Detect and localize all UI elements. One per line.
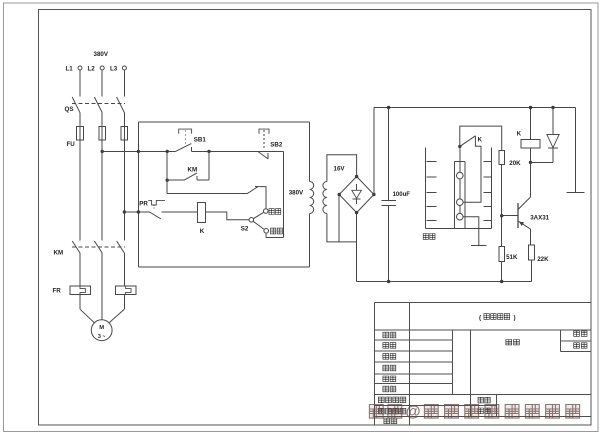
label manual shoudong: [271, 228, 276, 234]
svg-text:L3: L3: [110, 66, 118, 73]
motor M 3-phase: [91, 320, 112, 341]
svg-text:3AX31: 3AX31: [530, 215, 549, 222]
wire L1 to fuse: [79, 113, 81, 127]
wire L1 through fuse region: [79, 127, 81, 141]
wire bridge minus drop: [356, 213, 358, 282]
fuse FU L2: [99, 127, 106, 141]
pushbutton SB1 start: [179, 129, 192, 134]
wire PR to coil K: [162, 211, 198, 213]
fuse FU L3: [121, 127, 128, 141]
title block row lines: [374, 329, 591, 331]
wire L2 upper: [101, 70, 103, 97]
relay coil K: [198, 202, 206, 222]
label shuixiang water tank: [423, 234, 428, 240]
wire base link: [502, 215, 518, 217]
contact K water-level: [458, 145, 461, 148]
svg-text:FR: FR: [53, 288, 62, 295]
control circuit loop bottom: [138, 266, 309, 268]
pushbutton SB2 stop: [259, 129, 269, 134]
title text sheji: [383, 376, 389, 382]
svg-text:PR: PR: [139, 201, 148, 208]
wire right drop to manual: [282, 151, 284, 237]
selector S2 auto terminal: [264, 209, 269, 214]
wire lower probe to ground bar: [463, 217, 479, 246]
wire 22K to rail: [530, 260, 532, 281]
transformer T primary winding: [309, 122, 311, 182]
node KM-branch left: [166, 150, 169, 153]
resistor R3 22K: [528, 245, 534, 260]
transformer T secondary winding: [323, 182, 327, 214]
node L2 control tap: [101, 150, 104, 153]
node base junction: [500, 214, 503, 217]
svg-text:K: K: [517, 132, 522, 138]
thermal relay FR element L1: [70, 286, 90, 295]
wire probe loop: [460, 126, 502, 151]
title block outer: [374, 301, 591, 303]
node bridge left: [338, 193, 341, 196]
wire bridge left arm: [338, 195, 340, 242]
svg-text:K: K: [200, 228, 205, 235]
wire SB1 to node: [191, 150, 254, 152]
title block label column: [409, 302, 411, 424]
wire control feed upper: [102, 150, 138, 152]
selector switch S2 common: [249, 218, 254, 223]
selector S2 manual terminal: [264, 229, 269, 234]
wire bridge plus riser: [373, 108, 375, 195]
wire L1 KM to FR: [79, 253, 81, 286]
bridge diode symbol: [356, 184, 358, 190]
resistor R2 51K: [499, 246, 504, 261]
wire L3 down to KM: [123, 140, 125, 241]
wire auto rung: [166, 180, 168, 194]
title text shenhe: [383, 343, 389, 349]
title text jiaohe: [383, 365, 389, 371]
svg-text:380V: 380V: [289, 189, 304, 196]
svg-text:@: @: [406, 404, 421, 421]
svg-text:M: M: [99, 325, 104, 331]
wire top rung to right drop: [255, 150, 284, 152]
water level hatching: [427, 161, 437, 163]
wire L2 KM down: [101, 253, 103, 320]
title text bili scale: [478, 397, 483, 403]
svg-text:KM: KM: [54, 250, 64, 257]
bridge rectifier VC: [339, 177, 374, 213]
title text gongcheng: [506, 340, 512, 345]
transistor V1 3AX31: [530, 162, 532, 197]
wire L1 upper: [79, 70, 81, 97]
wire L2 to fuse: [101, 113, 103, 127]
node control entry lower: [137, 210, 140, 213]
svg-text:51K: 51K: [506, 254, 518, 261]
label auto qidong: [269, 209, 274, 215]
title text shencha: [383, 354, 389, 360]
wire L1 down to KM: [79, 140, 81, 241]
wire upper probe lead: [459, 148, 461, 172]
wire DC minus rail: [357, 281, 532, 283]
svg-text:KM: KM: [188, 167, 198, 174]
probe rod links: [459, 179, 461, 199]
svg-text:380V: 380V: [94, 51, 109, 58]
title text sheji danwei: [378, 408, 384, 414]
svg-text:K: K: [478, 137, 483, 143]
probe electrode middle: [457, 199, 464, 206]
QS linkage dashed: [72, 102, 125, 104]
svg-text:SB1: SB1: [194, 137, 207, 144]
control circuit loop left: [137, 122, 139, 267]
node coil-diode junction: [529, 161, 532, 164]
node L3 control tap: [123, 210, 126, 213]
node control entry upper: [137, 150, 140, 153]
title text zhitu: [383, 386, 389, 392]
wire rail right end electrode: [575, 108, 577, 193]
title text bufen: [574, 343, 580, 348]
node bridge bottom: [355, 211, 358, 214]
title block inner columns: [451, 330, 453, 394]
title text fazheng danwei: [378, 397, 384, 403]
terminal L3: [122, 66, 126, 70]
thermal relay FR element L3: [116, 286, 136, 295]
fuse FU L1: [77, 127, 84, 141]
contact K auto enable: [247, 187, 258, 194]
capacitor C1 100uF: [388, 108, 390, 201]
wire emitter to 22K: [530, 229, 532, 245]
title text sheji right: [574, 331, 580, 336]
watermark zhihu: [369, 405, 383, 419]
node bridge top: [355, 175, 358, 178]
title text riqi: [384, 418, 390, 424]
control circuit loop top: [138, 121, 309, 123]
wire L3 to fuse: [123, 113, 125, 127]
wire manual bottom link: [266, 237, 283, 239]
svg-text:S2: S2: [241, 226, 249, 233]
diode VD flyback: [551, 106, 554, 109]
wire L3 KM to FR: [123, 253, 125, 286]
resistor R1 20K: [499, 151, 504, 165]
wire L2 down to KM: [101, 140, 103, 241]
wire L1 FR to motor: [79, 295, 81, 310]
wire secondary top: [327, 155, 357, 182]
svg-text:L2: L2: [88, 66, 96, 73]
svg-text:QS: QS: [65, 106, 74, 113]
svg-text:FU: FU: [67, 141, 76, 148]
wire 20K to base node: [501, 165, 503, 247]
probe holder tube: [454, 162, 456, 229]
svg-text:100uF: 100uF: [393, 192, 411, 198]
svg-text:20K: 20K: [509, 160, 521, 167]
node KM-branch right: [207, 150, 210, 153]
KM linkage dashed: [72, 246, 125, 248]
wire 51K to rail: [501, 261, 503, 281]
svg-text:22K: 22K: [537, 256, 549, 263]
water tank: [425, 148, 427, 229]
svg-text:L1: L1: [66, 66, 74, 73]
relay coil K right: [530, 108, 532, 140]
contact KM auxiliary: [166, 151, 168, 180]
probe electrode upper: [457, 172, 464, 179]
svg-text:16V: 16V: [334, 166, 346, 173]
terminal L2: [100, 66, 104, 70]
wire control feed lower: [124, 211, 138, 213]
wire DC plus rail: [374, 107, 576, 109]
wire secondary bottom: [327, 214, 357, 242]
wire L3 FR to motor: [123, 295, 125, 310]
wire L3 upper: [123, 70, 125, 97]
terminal L1: [78, 66, 82, 70]
title text tuhao number: [478, 408, 483, 414]
svg-text:): ): [514, 315, 516, 322]
wire coil K to S2: [206, 212, 249, 220]
svg-text:3 ~: 3 ~: [98, 334, 106, 340]
svg-text:SB2: SB2: [270, 142, 283, 149]
title text heding: [383, 332, 389, 338]
wire control rung top: [138, 150, 175, 152]
node bridge right: [372, 193, 375, 196]
probe electrode lower: [457, 213, 464, 220]
